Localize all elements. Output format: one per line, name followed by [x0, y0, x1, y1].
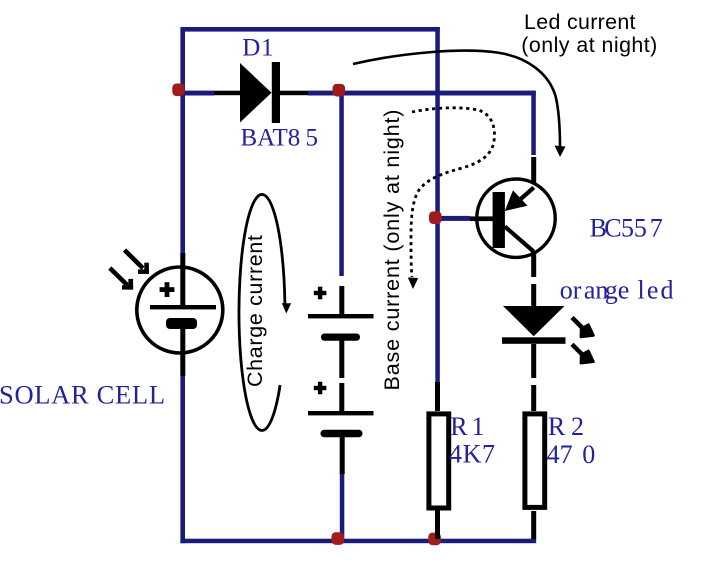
light arrow 1 into solar cell — [125, 250, 144, 268]
charge current loop ellipse with arrow — [239, 194, 285, 430]
diode D1 triangle — [240, 63, 272, 123]
wire: diode row right segment to emitter corner — [308, 91, 536, 96]
wire: left vertical lower (solar cell branch) — [180, 376, 185, 544]
solar cell circle — [137, 267, 223, 353]
base current arrowhead — [408, 278, 418, 290]
svg-text:Base current (only at night): Base current (only at night) — [379, 110, 404, 391]
led current arrowhead — [555, 146, 566, 158]
svg-text:R2: R2 — [548, 412, 584, 441]
solar cell plus sign — [160, 287, 175, 292]
base current dotted path — [411, 108, 494, 277]
battery cell 1 thick plate — [321, 334, 360, 341]
svg-text:orangeled: orangeled — [560, 276, 674, 305]
wire: emitter drop vertical — [531, 91, 536, 155]
solar cell top lead — [180, 253, 185, 307]
diode D1 cathode bar — [272, 62, 280, 123]
light arrow 2 into solar cell — [110, 268, 128, 285]
transistor BC557 circle — [477, 179, 555, 257]
node: junction dot R1/ground — [428, 533, 441, 546]
battery cell 2 long plate — [308, 411, 374, 415]
LED emission arrow 2 — [572, 344, 583, 355]
LED cathode bar — [502, 337, 566, 344]
battery bottom lead — [340, 437, 345, 474]
svg-text:4K7: 4K7 — [449, 440, 495, 469]
transistor BC557 base bar — [493, 192, 505, 248]
wire: battery branch lower vertical — [340, 474, 345, 541]
node: junction dot base row — [429, 211, 442, 224]
LED-to-R2 lead (R2 top lead) — [531, 385, 536, 411]
diode D1 cathode lead — [280, 91, 308, 96]
transistor BC557 emitter lead black — [531, 157, 536, 184]
svg-text:(only at night): (only at night) — [521, 33, 657, 57]
svg-text:BAT85: BAT85 — [241, 124, 319, 151]
solar cell thick plate — [166, 318, 197, 329]
wire: base row horizontal — [437, 216, 470, 221]
resistor R1 bottom lead — [435, 510, 440, 539]
resistor R2 bottom lead — [531, 511, 536, 539]
wire: battery branch upper vertical — [339, 93, 344, 276]
svg-text:R1: R1 — [450, 412, 484, 441]
LED emission arrow 1 — [572, 318, 583, 329]
LED triangle — [503, 306, 565, 336]
collector lead segment 1 — [531, 251, 536, 277]
svg-text:Charge current: Charge current — [243, 235, 267, 387]
battery cell 2 thick plate — [321, 430, 363, 437]
node: junction dot battery/ground — [332, 532, 345, 545]
wire: right vertical (R1 / base branch) — [435, 27, 440, 382]
battery cell 1 plus sign — [314, 291, 327, 295]
led current curve annotation — [353, 51, 560, 148]
diode D1 anode lead — [214, 91, 240, 96]
resistor R1 top lead — [435, 382, 440, 411]
svg-text:470: 470 — [547, 440, 596, 469]
transistor BC557 base lead black — [470, 216, 493, 221]
LED bottom lead segment 1 — [531, 344, 536, 378]
battery mid lead 2 — [339, 383, 344, 411]
transistor BC557 collector line — [505, 227, 534, 252]
svg-text:SOLAR CELL: SOLAR CELL — [0, 379, 165, 409]
node: junction dot battery/diode row — [333, 84, 346, 97]
battery cell 1 long plate — [308, 314, 374, 318]
battery cell 1 top lead — [339, 286, 344, 314]
node: junction dot left/diode row — [172, 84, 185, 97]
transistor BC557 emitter arrowhead — [505, 190, 528, 211]
resistor R2 body — [525, 414, 545, 508]
wire: left vertical upper (solar cell branch) — [180, 27, 185, 254]
transistor BC557 emitter arrow line — [519, 188, 534, 201]
wire: bottom horizontal (ground rail) — [180, 539, 536, 544]
svg-text:Led current: Led current — [524, 10, 636, 34]
solar cell long plate — [150, 305, 216, 309]
svg-text:BC557: BC557 — [590, 214, 663, 243]
wire: diode row left segment — [183, 91, 214, 96]
battery mid lead 1 — [339, 340, 344, 378]
battery cell 2 plus sign — [314, 386, 327, 390]
solar cell bottom lead — [180, 329, 185, 376]
svg-text:D1: D1 — [242, 35, 273, 62]
wire: top horizontal (V+ rail) — [181, 27, 440, 32]
resistor R1 body — [429, 414, 449, 508]
collector lead segment 2 — [531, 284, 536, 306]
